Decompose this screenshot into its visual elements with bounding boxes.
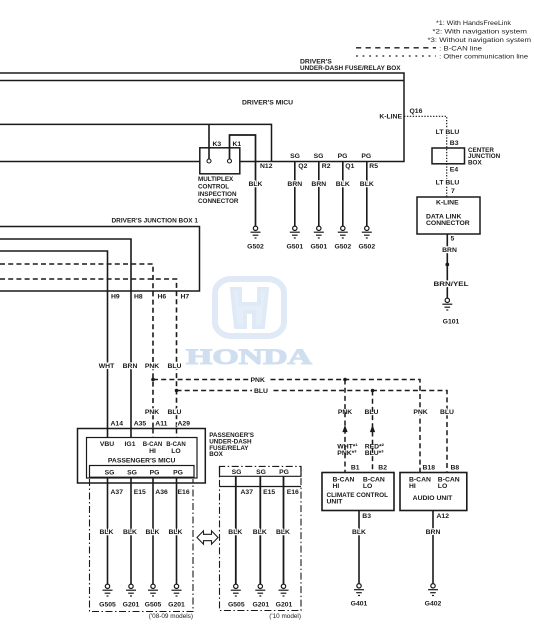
wire H9 WHT solid [0,251,108,429]
ground G401 [351,584,368,608]
svg-text:VBU: VBU [100,441,114,448]
wire B3 BLK to ground [352,511,366,584]
legend B-CAN line sample [356,45,483,52]
svg-text:E15: E15 [263,489,275,496]
svg-text:B1: B1 [351,464,360,471]
svg-text:UNDER-DASH FUSE/RELAY BOX: UNDER-DASH FUSE/RELAY BOX [300,65,401,72]
svg-text:K1: K1 [233,141,242,148]
svg-text:A14: A14 [111,420,124,427]
svg-text:A37: A37 [241,489,254,496]
wire H7 BLU dashed B-CAN [0,279,177,429]
svg-text:H8: H8 [134,293,143,300]
pin K1 circle [228,159,232,163]
svg-text:UNIT: UNIT [327,499,344,506]
wire PNK B-CAN horizontal branch [153,377,420,473]
svg-text:BLK: BLK [360,181,374,188]
svg-text:BLK: BLK [100,529,114,536]
svg-text:SG: SG [232,469,242,476]
svg-text:WHT: WHT [99,363,115,370]
svg-text:BRN/YEL: BRN/YEL [434,281,469,288]
ground G101 [442,298,459,325]
wire A35 stub into MICU [130,429,132,438]
svg-text:CONNECTOR: CONNECTOR [198,198,239,205]
wire BLU drop to climate B2 [372,391,374,473]
svg-text:Q16: Q16 [410,108,423,115]
svg-text:DRIVER'S JUNCTION BOX 1: DRIVER'S JUNCTION BOX 1 [112,218,199,225]
svg-text:SG: SG [290,153,300,160]
ground G501 R2 [310,226,327,250]
svg-text:LO: LO [171,448,180,455]
svg-text:B3: B3 [362,513,371,520]
wire Q2 BRN to ground [287,162,302,227]
svg-text:R5: R5 [369,163,378,170]
svg-text:A29: A29 [178,420,191,427]
svg-text:A35: A35 [134,420,147,427]
svg-text:B2: B2 [378,464,387,471]
svg-text:*2: With navigation system: *2: With navigation system [432,29,527,36]
svg-text:*3: Without navigation system: *3: Without navigation system [428,37,532,44]
svg-text:E15: E15 [134,489,146,496]
center junction box [432,147,501,167]
svg-text:BLK: BLK [169,529,183,536]
wire PNK drop to climate B1 [344,380,346,473]
svg-text:G201: G201 [168,602,185,609]
svg-text:A36: A36 [155,489,168,496]
svg-text:BOX: BOX [468,159,482,166]
wire BRN from data link connector [442,234,457,298]
wire H8 BRN solid [0,239,131,429]
svg-text:G201: G201 [123,602,140,609]
svg-text:BLK: BLK [146,529,160,536]
svg-text:E16: E16 [287,489,299,496]
wire A36 BLK to ground [146,477,160,584]
svg-text:PNK: PNK [251,377,265,384]
svg-text:Q1: Q1 [345,163,354,170]
svg-text:LT BLU: LT BLU [436,180,460,187]
node B-CAN LO audio [438,476,460,490]
wire arrow BLU into climate [370,426,374,432]
legend other communication line sample [356,54,529,61]
svg-text:HONDA: HONDA [186,344,313,369]
ground G502 Q1 [334,226,351,250]
node B-CAN HI [143,441,163,455]
wire E15 BLK to ground [123,477,137,584]
svg-text:Q2: Q2 [298,163,307,170]
svg-text:PASSENGER'S MICU: PASSENGER'S MICU [108,458,176,465]
micu SG PG strip box [90,466,195,478]
svg-text:MULTIPLEX: MULTIPLEX [198,176,234,183]
data link connector box [417,197,480,234]
svg-text:BRN: BRN [287,181,302,188]
svg-text:BLU*³: BLU*³ [365,450,385,457]
svg-text:PNK: PNK [145,363,159,370]
junction dot BRN splice [445,263,449,267]
wire A37 BLK to ground (10 model) [228,476,242,584]
svg-text:E16: E16 [178,489,190,496]
multiplex control inspection connector box [198,148,240,205]
svg-text:BLK: BLK [249,181,263,188]
svg-text:HI: HI [409,483,416,490]
svg-text:BLK: BLK [228,529,242,536]
ground G502 R5 [358,226,375,250]
ground G201 E16 [168,584,185,608]
wire Q1 BLK to ground [336,162,350,227]
junction dot BLU at climate branch [371,389,375,393]
model exchange arrow symbol [197,531,218,544]
ground G402 [425,584,442,608]
svg-text:LO: LO [438,483,447,490]
svg-text:SG: SG [256,469,266,476]
svg-text:IG1: IG1 [125,441,136,448]
svg-text:PG: PG [338,153,348,160]
node B-CAN HI audio [409,476,431,490]
svg-text:G201: G201 [252,602,269,609]
svg-text:BLU: BLU [168,409,182,416]
junction dot PNK at climate branch [343,378,347,382]
pin K3 circle [207,159,211,163]
svg-text:LT BLU: LT BLU [436,129,460,136]
svg-text:BRN: BRN [311,181,326,188]
svg-text:G501: G501 [286,244,303,251]
svg-text:BRN: BRN [426,529,441,536]
wire A12 BRN to ground [426,511,441,584]
junction dot BLU at H7 wire [175,389,179,393]
svg-text:SG: SG [314,153,324,160]
node B-CAN LO [166,441,186,455]
wire A37 BLK to ground [100,477,114,584]
svg-text:A12: A12 [437,513,450,520]
svg-text:A11: A11 [155,420,167,427]
10 model box bottom edge [220,486,302,488]
svg-text:DRIVER'S MICU: DRIVER'S MICU [242,99,293,106]
svg-text:H9: H9 [111,293,120,300]
ground G505 (10 model) [228,584,245,608]
node B-CAN HI climate [333,476,355,490]
svg-text:H7: H7 [181,293,190,300]
svg-text:HI: HI [333,483,340,490]
svg-text:LO: LO [363,483,372,490]
driver's junction box 1 [0,218,200,292]
wire A14 stub into MICU [107,429,109,438]
climate control unit box [322,473,394,511]
svg-text:('10 model): ('10 model) [269,613,301,620]
svg-text:A37: A37 [111,489,124,496]
svg-text:R2: R2 [322,163,331,170]
ground G201 (10 model, E16) [276,584,293,608]
svg-text:PG: PG [173,469,183,476]
svg-text:5: 5 [451,236,455,243]
ground G505 A36 [145,584,162,608]
svg-text:BLU: BLU [440,409,454,416]
svg-text:('08-09 models): ('08-09 models) [149,613,193,620]
svg-text:E4: E4 [450,167,459,174]
svg-text:G505: G505 [228,602,245,609]
dash-dot frame 10 model [220,466,302,619]
svg-text:G505: G505 [145,602,162,609]
svg-text:BLK: BLK [253,529,267,536]
svg-text:B8: B8 [451,464,460,471]
svg-text:G401: G401 [351,601,368,608]
watermark Honda logo badge [215,279,284,336]
wire E16 BLK to ground [169,477,183,584]
wire K3 to MICU bus [208,124,210,159]
wire K-LINE dotted to data link connector [404,116,447,197]
svg-text:G502: G502 [358,244,375,251]
ground G502 N12 [247,226,264,250]
dash-dot frame 08-09 models [90,479,194,620]
wire K1 to N12 ground BLK [230,135,256,226]
svg-text:*1: With HandsFreeLink: *1: With HandsFreeLink [436,20,512,27]
svg-text:G502: G502 [247,244,264,251]
svg-text:INSPECTION: INSPECTION [198,191,237,198]
junction dot PNK at H6 wire [151,378,155,382]
wire BLU B-CAN horizontal branch [177,388,448,473]
wire E16 BLK to ground (10 model) [276,476,290,584]
svg-text:N12: N12 [260,163,273,170]
svg-text:K-LINE: K-LINE [436,199,459,206]
svg-text:CONNECTOR: CONNECTOR [426,220,470,227]
ground G505 A37 [99,584,116,608]
audio unit box [400,473,467,511]
svg-text:BLU: BLU [168,363,182,370]
svg-text:G502: G502 [334,244,351,251]
wire arrow PNK into climate [343,426,347,432]
svg-text:SG: SG [105,469,115,476]
svg-text:PG: PG [279,469,289,476]
wire label RED*2 BLU*3 [365,443,385,457]
wire bus inside driver's box [0,80,404,82]
svg-text:: B-CAN line: : B-CAN line [439,45,482,52]
svg-text:HI: HI [149,448,156,455]
svg-text:BLK: BLK [352,529,366,536]
wire A11 stub into MICU [152,429,154,438]
wire H6 PNK dashed B-CAN [0,264,153,429]
svg-text:K-LINE: K-LINE [379,114,402,121]
passenger's MICU box [87,438,198,479]
svg-text:PG: PG [150,469,160,476]
ground G201 (10 model) [252,584,269,608]
wire R5 BLK to ground [360,162,374,227]
passenger's under-dash fuse/relay box [78,429,254,484]
svg-text:AUDIO UNIT: AUDIO UNIT [413,495,453,502]
10 model SG PG strip [220,466,302,476]
ground G501 Q2 [286,226,303,250]
svg-text:G402: G402 [425,601,442,608]
svg-text:BLK: BLK [123,529,137,536]
svg-text:PNK: PNK [145,409,159,416]
svg-text:PG: PG [361,153,371,160]
node B-CAN LO climate [363,476,385,490]
svg-text:B3: B3 [450,140,459,147]
svg-text:CONTROL: CONTROL [198,184,229,191]
svg-text:BLU: BLU [254,388,268,395]
svg-text:PNK: PNK [413,409,427,416]
svg-text:K3: K3 [213,141,222,148]
svg-text:BRN: BRN [123,363,138,370]
svg-text:G505: G505 [99,602,116,609]
svg-text:G201: G201 [276,602,293,609]
driver's under-dash fuse/relay box [0,59,404,162]
svg-text:G501: G501 [310,244,327,251]
wire E15 BLK to ground (10 model) [253,476,267,584]
wire label WHT*1 PNK*3 [337,443,358,457]
svg-text:7: 7 [451,188,455,195]
wire R2 BRN to ground [311,162,326,227]
svg-text:PNK*³: PNK*³ [337,450,357,457]
svg-text:G101: G101 [443,319,460,326]
svg-text:BLK: BLK [336,181,350,188]
svg-text:H6: H6 [158,293,167,300]
svg-text:: Other communication line: : Other communication line [439,54,528,61]
wire MICU box outline [0,124,272,161]
svg-text:SG: SG [127,469,137,476]
svg-text:BLK: BLK [276,529,290,536]
svg-text:BOX: BOX [209,451,223,458]
ground G201 E15 [123,584,140,608]
svg-text:BLU: BLU [365,409,379,416]
svg-text:BRN: BRN [442,247,457,254]
svg-text:B18: B18 [423,464,436,471]
wire A29 stub into MICU [176,429,178,438]
